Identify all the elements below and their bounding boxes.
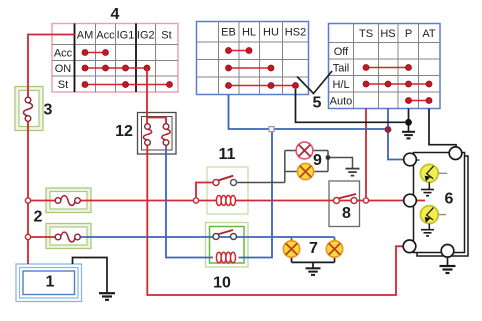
- wire: table 5b P down to ground: [408, 109, 410, 132]
- svg-text:3: 3: [44, 102, 53, 119]
- svg-text:Auto: Auto: [330, 96, 353, 108]
- svg-text:IG1: IG1: [117, 30, 135, 42]
- svg-text:HL: HL: [242, 27, 256, 39]
- ground: tail lamps 7: [306, 268, 321, 275]
- svg-text:HS: HS: [380, 28, 395, 40]
- fuse 12 left element: [143, 129, 151, 140]
- node: battery rail to fuse F2b: [25, 234, 30, 239]
- svg-text:2: 2: [34, 209, 43, 226]
- dimmer switch table 5a: [197, 22, 309, 95]
- node: switch 8 / TS wire: [363, 198, 368, 203]
- wire: fuse box 12 internal branch: [148, 118, 167, 124]
- fuse 12b terminals: [163, 124, 169, 146]
- table 5a contact dots: [226, 48, 299, 89]
- fuse F2a element: [61, 196, 76, 206]
- lighting switch table 5b: [329, 24, 441, 109]
- pin: headlamp ground: [441, 245, 454, 258]
- wire: branch up to relay 11 switch contact: [196, 183, 213, 198]
- svg-text:12: 12: [115, 123, 133, 140]
- fuse F3 element: [24, 103, 33, 116]
- relay 10 box: [206, 223, 249, 268]
- wire: stub inside headlamp at top pin: [414, 159, 420, 161]
- node: relay 11 branch: [193, 198, 198, 203]
- svg-text:7: 7: [309, 240, 318, 257]
- pin: headlamp LO feed: [404, 194, 417, 207]
- wire: table 5b TS down to switch 8 node: [365, 109, 367, 198]
- wire: headlamp bottom-right pin to ground: [447, 257, 449, 266]
- ground: headlamp bottom-right pin: [440, 266, 456, 273]
- svg-text:H/L: H/L: [332, 79, 349, 91]
- headlamp bulb LO: [420, 206, 446, 236]
- meter lamp 9b: [297, 163, 313, 179]
- headlamp unit 6 body: [414, 153, 469, 257]
- fuse F2b box: [46, 224, 91, 249]
- wire: rail to fuse 2a: [28, 200, 55, 202]
- fuse F2a box: [46, 188, 91, 213]
- svg-text:HS2: HS2: [285, 27, 306, 39]
- wire: table 5a EB down and across: [229, 95, 389, 130]
- relay 10 coil: [216, 252, 235, 262]
- svg-text:ON: ON: [55, 63, 72, 75]
- node: lamps 9 junction dot: [326, 155, 331, 160]
- svg-text:TS: TS: [359, 28, 373, 40]
- svg-text:Acc: Acc: [54, 48, 73, 60]
- svg-text:4: 4: [111, 6, 120, 23]
- fuse F2b terminals: [55, 234, 80, 240]
- switch 8 contacts: [334, 198, 358, 204]
- table 5b contact dots: [363, 65, 432, 104]
- svg-text:10: 10: [213, 275, 231, 292]
- fuse 12a terminals: [145, 124, 151, 146]
- svg-text:St: St: [58, 79, 68, 91]
- relay 11 switch arm: [218, 176, 234, 181]
- relay 11 box: [207, 167, 248, 214]
- ground: battery: [99, 293, 115, 300]
- relay 10 switch contacts: [213, 234, 237, 240]
- svg-text:6: 6: [445, 191, 454, 208]
- tail lamp 7a: [283, 241, 299, 257]
- svg-text:Off: Off: [334, 46, 349, 58]
- svg-text:AT: AT: [422, 28, 436, 40]
- svg-text:8: 8: [342, 205, 351, 222]
- svg-text:St: St: [161, 30, 171, 42]
- svg-text:Acc: Acc: [96, 30, 115, 42]
- svg-text:AM: AM: [77, 30, 94, 42]
- wire: fuse 12 right out down to relay 10 coil: [166, 145, 213, 257]
- table 4 contact rows: [85, 52, 106, 54]
- fuse F2a terminals: [55, 198, 80, 204]
- wire: fuse 2b out to relay 10 switch and tail lamps: [80, 236, 334, 238]
- ground: lamps 9: [346, 169, 360, 176]
- svg-text:Tail: Tail: [333, 63, 350, 75]
- pin: headlamp AT feed: [449, 147, 462, 160]
- wire: battery + rail to table 4 AM: [28, 35, 75, 98]
- node: ground bus junction dot: [405, 119, 412, 126]
- wire: fuse 2a out, relay 11 coil, switch 8, to headlamp LO pin: [80, 200, 403, 202]
- high beam indicator lamp 9a: [296, 142, 313, 159]
- node: EB/HS junction dot: [385, 126, 392, 133]
- wire: table 5b HS down, to headlamp top pin: [388, 109, 404, 160]
- fuse F3 terminals: [25, 97, 31, 121]
- ignition switch table 4: [52, 24, 178, 93]
- wire: relay 11 switch out to meter lamps 9: [237, 151, 298, 183]
- table 4 contact dots: [82, 50, 173, 88]
- svg-text:5: 5: [313, 95, 322, 112]
- wire: fuse 12 left out, bottom run to headlamp HI pin: [147, 145, 403, 295]
- wire: battery negative to ground: [73, 258, 108, 294]
- node: crossover square on tail lamp net: [269, 127, 274, 132]
- pin: headlamp HS feed: [404, 153, 417, 166]
- wire: table 4 IG2 down to fuse box 12: [146, 68, 148, 124]
- ground: under table 5b P: [402, 132, 415, 139]
- pin: headlamp HI feed: [403, 240, 416, 253]
- relay 11 switch contacts: [213, 180, 237, 186]
- relay 11 coil: [216, 196, 235, 206]
- table 5b contact rows: [366, 67, 409, 69]
- wire: stub inside headlamp at LO pin: [413, 200, 425, 202]
- node: battery rail to fuse F2a: [25, 198, 30, 203]
- fuse F2b element: [61, 232, 76, 242]
- fuse F3 box: [15, 87, 43, 131]
- svg-text:HU: HU: [263, 27, 279, 39]
- svg-text:11: 11: [219, 146, 236, 163]
- switch 8 box: [329, 181, 360, 227]
- label pointer for 5: [297, 71, 332, 94]
- wire: table 5a HS2 down to ground bus: [296, 89, 406, 122]
- wire: tail lamps 7 to ground: [292, 257, 335, 268]
- svg-text:IG2: IG2: [137, 30, 155, 42]
- headlamp bulb HI: [420, 164, 447, 195]
- wire: relay 10 coil out up to tail lamp net: [239, 132, 273, 258]
- fuse 12 right element: [162, 129, 170, 140]
- svg-text:EB: EB: [221, 27, 236, 39]
- wire: tail lamp drops: [292, 237, 335, 241]
- fuse box 12: [138, 113, 177, 155]
- wire: rail below fuse 3 to battery: [27, 121, 29, 264]
- table 5a contact rows: [229, 50, 250, 52]
- svg-text:P: P: [405, 28, 412, 40]
- svg-text:1: 1: [46, 274, 55, 291]
- relay 10 switch arm: [217, 230, 233, 235]
- switch 8 arm: [338, 194, 356, 199]
- wire: table 5b AT down to headlamp top-right pin: [429, 109, 456, 148]
- battery 1 box: [16, 264, 82, 302]
- wire: lamps 9 to ground: [313, 151, 353, 172]
- tail lamp 7b: [326, 241, 342, 257]
- svg-text:9: 9: [313, 152, 322, 169]
- wire: rail to fuse 2b: [28, 236, 55, 238]
